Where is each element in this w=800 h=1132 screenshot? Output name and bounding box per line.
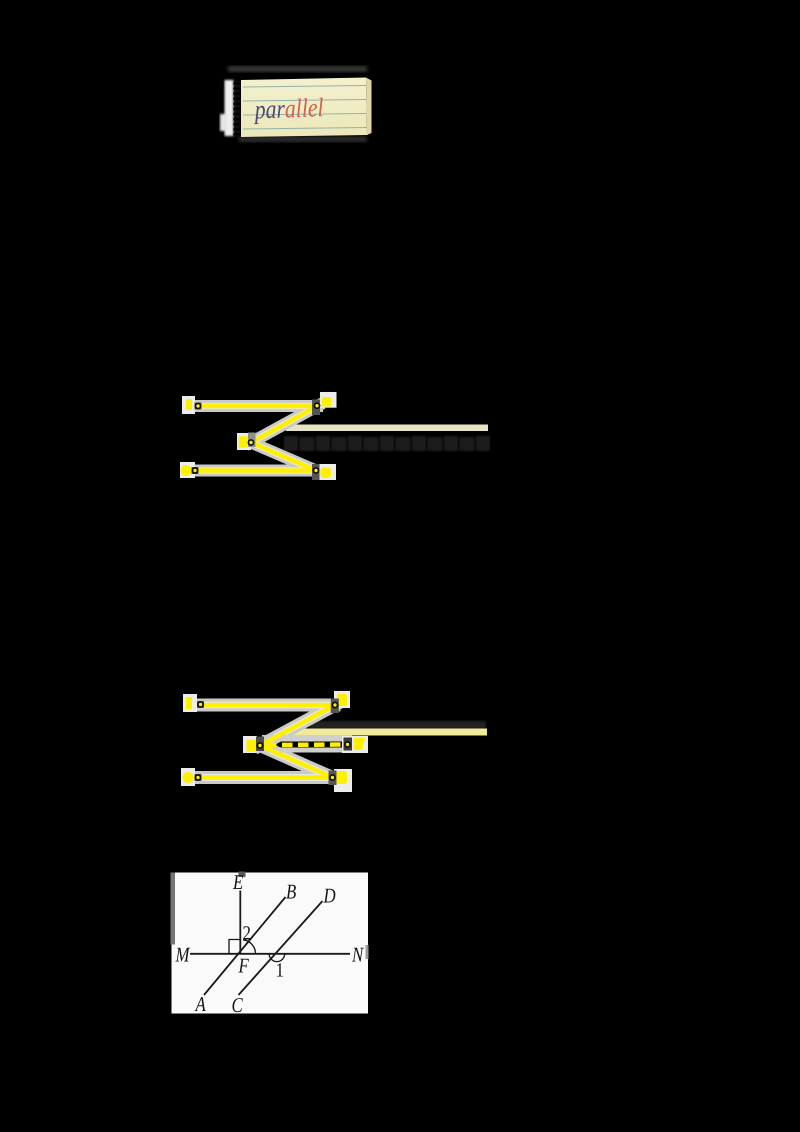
figure 2 diagonal lower [260,746,333,778]
figure 1 label blob top-left [186,399,192,410]
figure 1 bottom ray [196,468,316,473]
notebook page right edge [366,78,372,136]
svg-text:M: M [175,943,191,967]
svg-text:D: D [323,884,336,908]
notebook top shadow [228,66,367,72]
notebook left white nub [220,114,227,131]
figure 1 halo inner [196,406,318,471]
svg-text:E: E [232,870,243,894]
figure 2 bottom ray [199,775,333,780]
figure 2 label blob top-left [186,697,192,709]
svg-text:C: C [232,993,244,1017]
line AB [204,897,286,995]
dashed ray gray halo above [262,735,352,742]
svg-text:N: N [351,943,364,967]
figure 2 vertex dots [195,699,353,786]
figure 1 label blob middle [239,436,248,448]
notebook spiral binding [234,81,241,136]
figure 2 white label patches [181,691,368,792]
angle 1 arc [269,954,285,962]
figure 1 label blob bottom-right [321,468,332,479]
svg-text:A: A [194,992,206,1016]
dashed ray gray halo below [262,748,368,753]
faint dark text bar 2 [310,721,486,729]
right angle mark [229,940,240,954]
svg-text:2: 2 [243,923,252,945]
figure 2 top ray [201,703,334,708]
notebook paper [241,78,367,138]
figure 1 white label patches [180,392,337,480]
svg-text:parallel: parallel [253,92,324,124]
notebook white margin strip [225,80,234,136]
diagram right gray nub [366,945,369,959]
figure 1 top ray [199,404,317,409]
figure 1 diagonal upper [251,406,318,443]
diagram white background [172,873,369,1014]
line CD [239,901,323,995]
highlight band 2 [288,729,487,736]
notebook bottom shadow [239,137,367,143]
svg-text:F: F [238,954,249,978]
line MN [190,953,350,955]
figure 2 label blob top-right [337,694,347,706]
line EF vertical [239,891,241,954]
diagram left gray strip [171,873,176,945]
notebook ruled line 1 [243,86,366,88]
notebook ruled line 3 [243,114,366,116]
faint dark text row 1 [284,436,490,451]
angle 2 arc [243,940,256,954]
figure 2 label blob bottom-left [183,772,194,783]
figure 2 label blob bottom-right [335,771,347,784]
figure 2 label blob dashed-end [354,738,365,750]
figure 1 label blob top-right [322,397,332,407]
figure 2 diagonal upper [260,705,335,746]
highlight band 1 [286,425,488,432]
figure 2 dashed ray [266,742,344,747]
notebook ruled line 4 [243,128,367,130]
figure 1 halo [196,406,318,471]
diagram top gray nub [239,872,246,878]
svg-text:1: 1 [276,960,285,982]
figure 2 halo inner [199,705,335,778]
figure 1 diagonal lower [251,443,316,471]
notebook ruled line 2 [243,100,366,102]
figure 1 vertex dots [192,400,321,481]
svg-text:B: B [286,880,296,904]
figure 2 label blob middle [247,740,257,752]
figure 1 label blob bottom-left [181,465,192,476]
figure 2 halo [199,705,335,778]
